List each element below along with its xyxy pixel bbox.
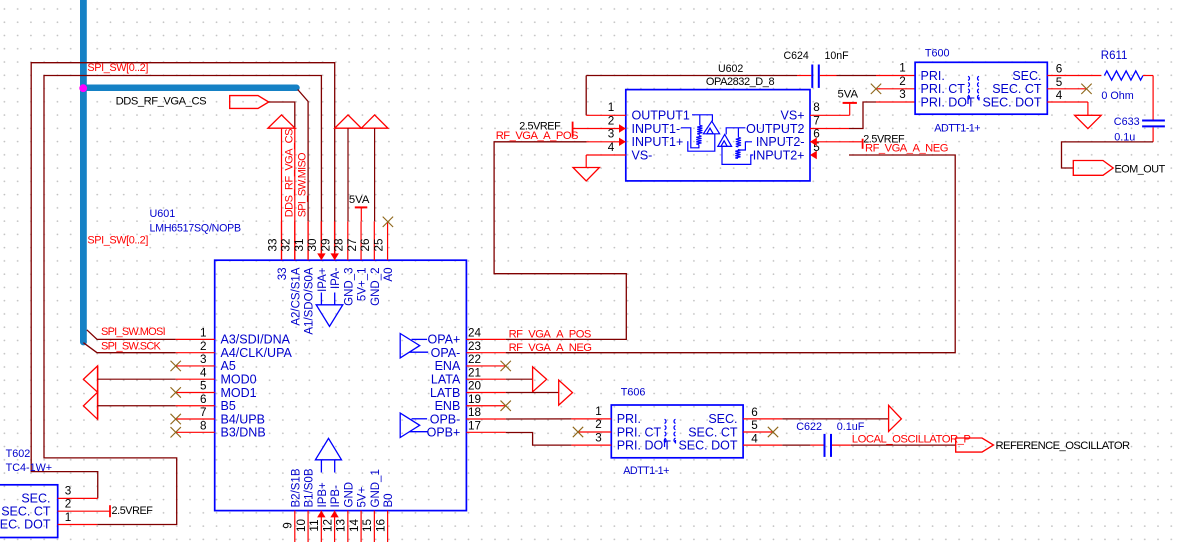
svg-text:14: 14: [348, 519, 361, 533]
pin 12 IPB- of U601 bottom: [334, 511, 336, 542]
svg-text:4: 4: [608, 141, 615, 154]
svg-text:A4/CLK/UPA: A4/CLK/UPA: [221, 346, 293, 360]
pin arrow into U601 pin 13 IPB-: [330, 511, 338, 518]
svg-text:SPI_SW[0..2]: SPI_SW[0..2]: [87, 62, 148, 74]
wire C622 to REFERENCE_OSCILLATOR port: [832, 444, 851, 446]
pin arrow into U602 pin2: [619, 124, 626, 132]
harness entry arrow MOD0: [83, 366, 97, 392]
svg-text:0.1uF: 0.1uF: [837, 421, 865, 433]
power symbol up-triangle GND_2 pin 26: [361, 115, 388, 128]
wire SPI_SW.MOSI harness to U601 pin 1: [87, 330, 176, 340]
wire pin 26 to triangle: [374, 128, 376, 221]
svg-text:33: 33: [266, 238, 279, 251]
svg-text:U601: U601: [150, 208, 176, 220]
pin 7 B4/UPB of U601: [176, 418, 215, 420]
svg-text:2: 2: [595, 418, 602, 431]
pin 26 GND_2 of U601 top: [373, 221, 375, 260]
svg-text:5: 5: [751, 419, 758, 432]
pin arrow into U601 pin 12 IPB+: [317, 511, 325, 518]
svg-text:19: 19: [468, 393, 481, 406]
no-connect X at T600 pin2: [876, 88, 915, 90]
power port 5VA at U602 pin8: [843, 102, 857, 104]
wire SPI_SW inner run to U601 pin 30 and T602 pin 1: [44, 76, 321, 525]
pin 4 MOD0 of U601: [176, 378, 215, 380]
power symbol up-triangle GND_3 pin 28: [335, 115, 362, 128]
svg-text:9: 9: [282, 522, 295, 529]
port DDS_RF_VGA_CS: [230, 96, 269, 109]
svg-text:DDS_RF_VGA_CS: DDS_RF_VGA_CS: [116, 96, 207, 108]
pin 18 OPB- of U601: [466, 418, 505, 420]
svg-text:SEC.: SEC.: [708, 412, 737, 426]
svg-text:31: 31: [293, 238, 306, 251]
svg-text:10nF: 10nF: [825, 50, 850, 62]
pin 20 LATB of U601: [466, 391, 505, 393]
svg-text:T600: T600: [925, 47, 950, 59]
svg-text:C622: C622: [796, 421, 822, 433]
power port 2.5VREF at T602 pin2: [58, 510, 110, 512]
pin 28 GND_3 of U601 top: [347, 221, 349, 260]
svg-text:IPA+: IPA+: [317, 267, 329, 292]
svg-text:OPA+: OPA+: [428, 333, 461, 347]
pin stub T606 pin3: [571, 444, 611, 446]
svg-text:2: 2: [65, 498, 72, 511]
svg-text:OPB+: OPB+: [427, 426, 461, 440]
pin 2 A4/CLK/UPA of U601: [176, 352, 215, 354]
no-connect X at T606 pin5: [743, 431, 773, 433]
svg-text:2.5VREF: 2.5VREF: [112, 505, 154, 517]
svg-text:SPI_SW.SCK: SPI_SW.SCK: [101, 341, 162, 353]
svg-text:EOM_OUT: EOM_OUT: [1115, 164, 1166, 176]
svg-text:2: 2: [899, 75, 906, 88]
wire SPI_SW outer run to U601 pin 29 and T602 pin 3: [31, 63, 335, 499]
pin 27 5V+_1 of U601 top: [360, 221, 362, 260]
svg-text:PRI. DOT: PRI. DOT: [921, 95, 976, 109]
svg-text:A1/SDO/S0A: A1/SDO/S0A: [304, 267, 316, 334]
pin 16 B0 of U601 bottom: [387, 511, 389, 542]
pin 10 B1/S0B of U601 bottom: [307, 511, 309, 542]
svg-text:2: 2: [608, 114, 615, 127]
pin 1 A3/SDI/DNA of U601: [176, 338, 215, 340]
pin 17 OPB+ of U601: [466, 431, 505, 433]
pin 24 OPA+ of U601: [466, 338, 505, 340]
svg-text:6: 6: [200, 393, 207, 406]
pin 11 IPB+ of U601 bottom: [320, 511, 322, 542]
svg-text:IPA-: IPA-: [330, 267, 342, 289]
svg-text:29: 29: [319, 238, 332, 251]
port EOM_OUT: [1073, 161, 1113, 176]
wire T600 pin4 to ground: [1047, 101, 1088, 103]
svg-text:MOD0: MOD0: [221, 373, 257, 387]
symbol U602 internal amp 1: [692, 115, 712, 121]
ic U602 body: [626, 90, 810, 181]
svg-text:GND_1: GND_1: [370, 469, 382, 507]
svg-text:INPUT1-: INPUT1-: [632, 122, 681, 136]
wire T606 pin6 to harness arrow: [743, 418, 782, 420]
svg-text:ADTT1-1+: ADTT1-1+: [623, 465, 669, 477]
symbol T606 primary coil: [665, 419, 667, 423]
svg-text:SEC. CT: SEC. CT: [1, 504, 51, 518]
svg-text:PRI.: PRI.: [921, 69, 945, 83]
svg-text:28: 28: [333, 238, 346, 251]
svg-text:PRI. DOT: PRI. DOT: [617, 438, 672, 452]
svg-text:3: 3: [65, 485, 72, 498]
wire VS+ to 5VA: [810, 114, 850, 116]
svg-text:3: 3: [899, 88, 906, 101]
svg-text:A2/CS/S1A: A2/CS/S1A: [290, 267, 302, 325]
svg-text:A5: A5: [221, 359, 236, 373]
svg-text:3: 3: [200, 353, 207, 366]
harness entry arrow LATB: [559, 380, 573, 405]
wire harness horizontal bus DDS_RF_VGA_CS: [83, 85, 296, 92]
harness entry arrow LOCAL_OSCILLATOR: [889, 405, 902, 431]
wire OUTPUT1 to C624: [586, 75, 797, 77]
svg-text:20: 20: [468, 380, 482, 393]
wire harness vertical bus: [80, 0, 87, 343]
svg-text:B4/UPB: B4/UPB: [221, 412, 265, 426]
symbol U601 internal input amp A (down triangle): [320, 293, 322, 305]
wire pin 28 to triangle: [347, 128, 349, 221]
svg-text:INPUT2+: INPUT2+: [753, 148, 805, 162]
pin 30 IPA+ of U601 top: [320, 221, 322, 260]
svg-text:4: 4: [751, 432, 758, 445]
svg-text:5VA: 5VA: [838, 89, 859, 101]
svg-text:0 Ohm: 0 Ohm: [1101, 90, 1133, 102]
wire RF_VGA_A_POS U601 pin24 to U602 pin3: [494, 142, 626, 340]
svg-text:INPUT1+: INPUT1+: [632, 135, 684, 149]
svg-text:LMH6517SQ/NOPB: LMH6517SQ/NOPB: [150, 222, 242, 234]
pin 5 MOD1 of U601: [176, 391, 215, 393]
svg-text:OPA-: OPA-: [431, 346, 461, 360]
capacitor C624: [811, 65, 813, 88]
port REFERENCE_OSCILLATOR: [956, 438, 994, 452]
svg-text:1: 1: [200, 327, 207, 340]
pin 25 A0 of U601 top: [387, 221, 389, 260]
svg-text:VS-: VS-: [632, 148, 653, 162]
symbol U601 internal output amp B triangle: [400, 413, 420, 437]
svg-text:15: 15: [361, 519, 374, 533]
wire pin 33 to triangle: [281, 128, 283, 260]
svg-text:5: 5: [200, 380, 207, 393]
wire T600 pin6 to R611: [1047, 75, 1101, 77]
svg-text:A3/SDI/DNA: A3/SDI/DNA: [221, 333, 291, 347]
svg-text:VS+: VS+: [781, 109, 805, 123]
no-connect X at U601 pin 25 A0: [383, 217, 393, 227]
svg-text:SEC. CT: SEC. CT: [992, 82, 1042, 96]
svg-text:1: 1: [595, 405, 602, 418]
pin stub U602 pin1 OUTPUT1 with wire from C624: [585, 76, 587, 116]
svg-text:OPA2832_D_8: OPA2832_D_8: [706, 76, 775, 88]
svg-text:7: 7: [200, 406, 207, 419]
svg-text:SPI_SW.MOSI: SPI_SW.MOSI: [101, 326, 166, 338]
svg-text:2: 2: [200, 340, 207, 353]
svg-text:17: 17: [468, 419, 481, 432]
svg-text:ADTT1-1+: ADTT1-1+: [934, 123, 980, 135]
wire LATA to harness arrow: [506, 378, 533, 380]
svg-text:B3/DNB: B3/DNB: [221, 426, 266, 440]
svg-text:TC4-1W+: TC4-1W+: [6, 462, 53, 474]
svg-text:30: 30: [306, 238, 319, 252]
wire B5 to U601 pin 6: [97, 405, 175, 407]
wire OUTPUT2 U602 pin7 to T600 pin3: [810, 128, 849, 130]
pin 13 GND of U601 bottom: [347, 511, 349, 542]
pin arrow into U602 pin3: [619, 138, 626, 146]
pin 23 OPA- of U601: [466, 352, 505, 354]
pin stub T602 pin1: [58, 524, 97, 526]
ic U601 body: [215, 260, 467, 510]
wire SPI_SW.SCK harness to U601 pin 2: [83, 343, 175, 353]
svg-text:LOCAL_OSCILLATOR_P: LOCAL_OSCILLATOR_P: [852, 433, 971, 445]
svg-text:26: 26: [359, 238, 372, 251]
pin 3 A5 of U601: [176, 365, 215, 367]
pin stub U602 pin3 INPUT1+: [587, 141, 626, 143]
svg-text:21: 21: [468, 366, 481, 379]
wire T600 pin5 no-connect: [1047, 88, 1086, 90]
svg-text:REFERENCE_OSCILLATOR: REFERENCE_OSCILLATOR: [996, 440, 1131, 452]
no-connect X at U601 pin 3 A5: [171, 361, 181, 371]
pin 19 ENB of U601: [466, 405, 505, 407]
svg-text:3: 3: [608, 128, 615, 141]
svg-text:22: 22: [468, 353, 481, 366]
svg-text:T606: T606: [621, 387, 646, 399]
transformer T606 body: [611, 405, 743, 458]
no-connect X at U601 pin 22 ENA: [501, 361, 511, 371]
svg-text:32: 32: [280, 238, 293, 251]
svg-text:1: 1: [608, 101, 615, 114]
svg-text:1: 1: [899, 62, 906, 75]
svg-text:B1/S0B: B1/S0B: [304, 468, 316, 507]
ground symbol below T600: [1075, 115, 1102, 128]
svg-text:MOD1: MOD1: [221, 386, 257, 400]
wire C624 to T600 pin1: [820, 75, 837, 77]
svg-text:SEC. CT: SEC. CT: [688, 425, 738, 439]
svg-text:PRI.: PRI.: [617, 412, 641, 426]
svg-text:SEC. DOT: SEC. DOT: [982, 95, 1041, 109]
symbol T606 secondary coil: [674, 419, 676, 423]
svg-text:33: 33: [277, 268, 289, 281]
wire T606 pin4 to C622: [743, 444, 782, 446]
harness entry arrow B5: [83, 392, 97, 419]
svg-text:27: 27: [346, 238, 359, 251]
transformer T602 body: [0, 485, 58, 538]
wire DDS_RF_VGA_CS port to U601 pin 32: [269, 102, 295, 127]
power symbol up-triangle pin 33: [268, 115, 295, 128]
svg-text:6: 6: [1056, 63, 1063, 76]
no-connect X at U601 pin 7 B4/UPB: [171, 414, 181, 424]
svg-text:RF_VGA_A_POS: RF_VGA_A_POS: [496, 130, 578, 142]
svg-text:ENB: ENB: [435, 399, 461, 413]
svg-text:6: 6: [751, 406, 758, 419]
no-connect X at U601 pin 5 MOD1: [171, 387, 181, 397]
capacitor C622: [824, 434, 826, 457]
symbol T600 primary coil: [968, 76, 970, 80]
no-connect X at U601 pin 19 ENB: [501, 401, 511, 411]
svg-text:SPI_SW.MISO: SPI_SW.MISO: [297, 153, 309, 217]
pin 32 A2/CS/S1A of U601 top: [294, 221, 296, 260]
svg-text:23: 23: [468, 340, 481, 353]
pin 21 LATA of U601: [466, 378, 505, 380]
svg-text:8: 8: [813, 101, 820, 114]
wire C633 to EOM_OUT port: [1152, 127, 1154, 141]
svg-text:A0: A0: [383, 268, 395, 282]
svg-text:5V+: 5V+: [357, 486, 369, 507]
svg-text:GND: GND: [343, 482, 355, 508]
capacitor C633: [1142, 120, 1165, 122]
svg-text:25: 25: [372, 238, 385, 252]
symbol U601 internal input amp B (up triangle): [320, 460, 322, 473]
svg-text:8: 8: [200, 419, 207, 432]
svg-text:1: 1: [65, 511, 72, 524]
wire junction arrow into U601 pin 29: [331, 253, 339, 260]
svg-text:SEC. DOT: SEC. DOT: [678, 438, 737, 452]
svg-text:C624: C624: [784, 50, 809, 62]
svg-text:OUTPUT1: OUTPUT1: [632, 109, 690, 123]
wire OPB- U601 pin18 to T606 pin1: [506, 418, 572, 420]
pin 6 B5 of U601: [176, 405, 215, 407]
svg-text:16: 16: [374, 519, 387, 532]
symbol U601 internal output amp A triangle: [400, 334, 420, 358]
svg-text:OPB-: OPB-: [430, 412, 461, 426]
svg-text:18: 18: [468, 406, 481, 419]
wire U602 VS- to ground: [586, 154, 626, 156]
svg-text:13: 13: [335, 519, 348, 532]
svg-text:3: 3: [595, 431, 602, 444]
svg-text:B5: B5: [221, 399, 236, 413]
pin 22 ENA of U601: [466, 365, 505, 367]
pin 31 A1/SDO/S0A of U601 top: [307, 221, 309, 260]
svg-text:SEC.: SEC.: [1012, 69, 1041, 83]
power port 2.5VREF at U602 pin6: [810, 141, 849, 143]
pin 9 B2/S1B of U601 bottom: [294, 511, 296, 542]
pin 29 IPA- of U601 top: [334, 221, 336, 260]
wire MOD0 to U601 pin 4: [97, 378, 175, 380]
svg-text:PRI. CT: PRI. CT: [921, 82, 966, 96]
pin arrow into U602 pin5 INPUT2+: [810, 151, 817, 159]
svg-text:IPB+: IPB+: [317, 482, 329, 508]
pin stub T602 pin3: [58, 497, 98, 499]
pin stub T606 pin1: [571, 418, 611, 420]
svg-text:B0: B0: [383, 493, 395, 507]
svg-text:10: 10: [295, 519, 308, 533]
pin 14 5V+ of U601 bottom: [360, 511, 362, 542]
svg-text:24: 24: [468, 327, 482, 340]
svg-text:OUTPUT2: OUTPUT2: [746, 122, 804, 136]
pin 8 B3/DNB of U601: [176, 431, 215, 433]
svg-text:5V+_1: 5V+_1: [357, 268, 369, 302]
no-connect X at U601 pin 8 B3/DNB: [171, 427, 181, 437]
svg-text:RF_VGA_A_NEG: RF_VGA_A_NEG: [865, 143, 948, 155]
svg-text:4: 4: [1056, 89, 1063, 102]
svg-text:PRI. CT: PRI. CT: [617, 425, 662, 439]
svg-text:7: 7: [813, 114, 820, 127]
svg-text:5VA: 5VA: [349, 194, 370, 206]
svg-text:U602: U602: [718, 63, 743, 75]
symbol U602 internal amp 2: [726, 128, 745, 135]
svg-text:LATB: LATB: [430, 386, 460, 400]
symbol T600 secondary coil: [977, 76, 979, 80]
svg-text:IPB-: IPB-: [330, 485, 342, 508]
pin arrow into U602 pin6 INPUT2-: [810, 138, 817, 146]
ground symbol below U602: [573, 168, 599, 182]
svg-text:T602: T602: [6, 448, 31, 460]
wire RF_VGA_A_NEG U601 pin23 to U602 pin5: [506, 155, 956, 353]
svg-text:DDS_RF_VGA_CS: DDS_RF_VGA_CS: [283, 129, 295, 217]
svg-text:SEC. DOT: SEC. DOT: [0, 518, 51, 532]
svg-text:INPUT2-: INPUT2-: [756, 135, 805, 149]
resistor R611: [1104, 71, 1143, 80]
svg-text:R611: R611: [1101, 50, 1128, 62]
transformer T600 body: [915, 62, 1047, 114]
svg-text:5: 5: [1056, 76, 1063, 89]
svg-text:11: 11: [308, 519, 321, 531]
svg-text:4: 4: [200, 366, 207, 379]
pin 33 33 of U601 top: [281, 221, 283, 260]
svg-text:GND_3: GND_3: [343, 268, 355, 306]
pin 15 GND_1 of U601 bottom: [373, 511, 375, 542]
svg-text:B2/S1B: B2/S1B: [290, 468, 302, 507]
wire R611 to C633: [1143, 75, 1153, 77]
svg-text:SPI_SW[0..2]: SPI_SW[0..2]: [87, 234, 148, 246]
svg-text:LATA: LATA: [431, 373, 461, 387]
no-connect X at T606 pin2: [578, 431, 611, 433]
svg-text:C633: C633: [1114, 116, 1140, 128]
wire junction arrow into U601 pin 30: [317, 253, 325, 260]
wire OPB+ U601 pin17 to T606 pin3: [506, 433, 572, 446]
svg-text:GND_2: GND_2: [370, 268, 382, 306]
svg-text:ENA: ENA: [435, 359, 461, 373]
node harness junction: [79, 84, 87, 92]
harness entry arrow LATA: [533, 367, 547, 392]
wire LATB to harness arrow: [506, 391, 559, 393]
wire SPI_SW.MISO harness to U601 pin 31: [298, 90, 308, 222]
svg-text:12: 12: [321, 519, 334, 532]
